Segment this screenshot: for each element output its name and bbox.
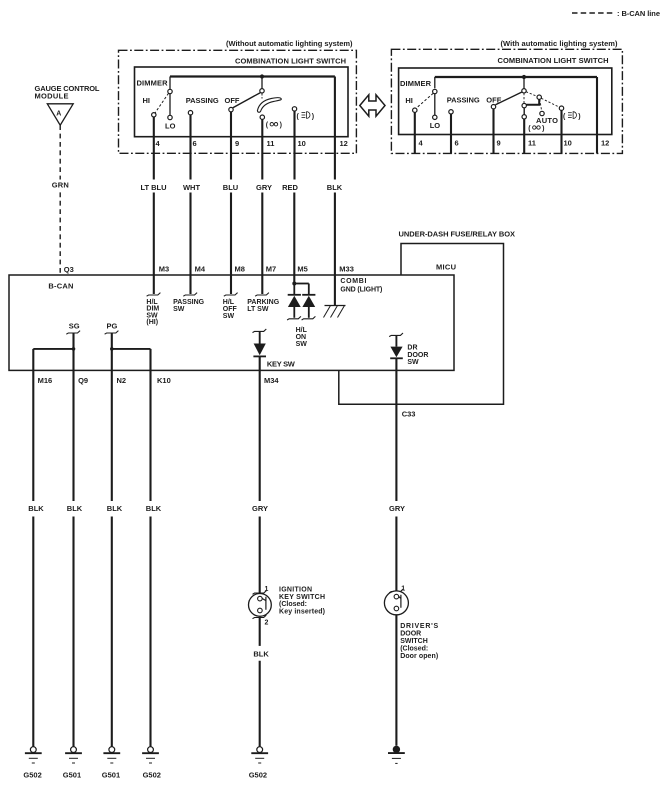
svg-text:SW: SW [223,313,235,320]
svg-text:BLK: BLK [107,504,123,513]
svg-text:G501: G501 [63,770,81,779]
svg-text:H/L: H/L [296,327,308,334]
svg-text:COMBINATION LIGHT SWITCH: COMBINATION LIGHT SWITCH [498,56,609,65]
svg-text:PASSING: PASSING [186,96,219,105]
svg-text:LO: LO [165,121,176,130]
svg-text:11: 11 [528,139,536,148]
svg-text:SWITCH: SWITCH [400,638,428,645]
svg-text:MICU: MICU [436,262,456,271]
svg-text:LO: LO [430,121,441,130]
svg-text:Key inserted): Key inserted) [279,609,325,616]
svg-text:ON: ON [296,334,307,341]
svg-text:COMBINATION LIGHT SWITCH: COMBINATION LIGHT SWITCH [235,57,346,66]
svg-text:PG: PG [107,322,118,331]
svg-text:): ) [542,125,544,132]
svg-text:GRY: GRY [389,504,405,513]
svg-text:B-CAN: B-CAN [48,281,73,290]
svg-text:BLK: BLK [146,504,162,513]
svg-text:9: 9 [497,139,501,148]
svg-text:G502: G502 [143,770,161,779]
svg-text:DIMMER: DIMMER [400,79,432,88]
svg-text:11: 11 [267,139,275,148]
svg-text:SG: SG [69,322,80,331]
svg-text:(HI): (HI) [146,319,158,326]
svg-text:(With automatic lighting syste: (With automatic lighting system) [501,39,619,48]
svg-text:DRIVER'S: DRIVER'S [400,623,438,630]
svg-text:LT BLU: LT BLU [140,183,166,192]
svg-text:Door open): Door open) [400,653,438,660]
svg-text:SW: SW [407,359,419,366]
svg-text:: B-CAN line: : B-CAN line [617,9,660,18]
svg-text:): ) [578,114,580,121]
svg-text:DIMMER: DIMMER [137,78,169,87]
svg-text:WHT: WHT [183,183,200,192]
svg-text:10: 10 [564,139,572,148]
svg-text:OFF: OFF [223,306,238,313]
svg-text:UNDER-DASH FUSE/RELAY BOX: UNDER-DASH FUSE/RELAY BOX [399,230,516,239]
svg-text:OFF: OFF [225,96,240,105]
svg-text:SW: SW [173,306,185,313]
svg-text:M34: M34 [264,376,279,385]
svg-text:1: 1 [401,586,405,593]
svg-text:M5: M5 [297,265,307,274]
svg-text:A: A [56,111,61,118]
svg-text:GRY: GRY [256,183,272,192]
svg-text:DR: DR [407,345,417,352]
svg-text:DOOR: DOOR [407,352,428,359]
svg-text:HI: HI [143,96,151,105]
svg-text:G502: G502 [23,770,41,779]
svg-text:H/L: H/L [223,299,235,306]
svg-text:SW: SW [296,341,308,348]
svg-text:KEY SW: KEY SW [267,360,296,369]
svg-text:BLK: BLK [327,183,343,192]
svg-text:M7: M7 [266,265,276,274]
svg-text:IGNITION: IGNITION [279,586,312,593]
svg-text:PASSING: PASSING [447,95,480,104]
svg-text:BLK: BLK [253,649,269,658]
svg-text:M33: M33 [339,265,354,274]
svg-text:PARKING: PARKING [247,299,280,306]
svg-text:6: 6 [193,139,197,148]
svg-text:1: 1 [265,586,269,593]
svg-text:OFF: OFF [486,95,501,104]
svg-text:10: 10 [298,139,306,148]
svg-text:12: 12 [340,139,348,148]
svg-text:PASSING: PASSING [173,299,205,306]
svg-text:): ) [312,114,314,121]
svg-text:M16: M16 [38,376,53,385]
svg-text:BLK: BLK [28,504,44,513]
svg-text:Q9: Q9 [78,376,88,385]
svg-text:BLK: BLK [67,504,83,513]
svg-text:2: 2 [265,619,269,626]
svg-text:GND (LIGHT): GND (LIGHT) [340,287,382,294]
svg-text:C33: C33 [402,409,416,418]
svg-text:(Closed:: (Closed: [400,645,428,652]
svg-text:M8: M8 [235,265,245,274]
svg-text:6: 6 [455,139,459,148]
svg-text:BLU: BLU [223,183,238,192]
svg-text:N2: N2 [117,376,127,385]
svg-text:G502: G502 [249,770,267,779]
svg-text:M3: M3 [159,265,169,274]
svg-text:AUTO: AUTO [536,116,558,125]
svg-text:G501: G501 [102,770,120,779]
svg-text:KEY SWITCH: KEY SWITCH [279,594,325,601]
svg-text:GRY: GRY [252,504,268,513]
svg-text:LT SW: LT SW [247,306,269,313]
svg-text:K10: K10 [157,376,171,385]
svg-text:DOOR: DOOR [400,631,421,638]
svg-text:HI: HI [405,96,413,105]
svg-text:): ) [280,122,282,129]
svg-text:(Without automatic lighting sy: (Without automatic lighting system) [226,39,353,48]
svg-text:MODULE: MODULE [35,91,69,100]
svg-text:12: 12 [601,139,609,148]
svg-text:COMBI: COMBI [340,278,366,285]
svg-text:9: 9 [235,139,239,148]
svg-text:M4: M4 [195,265,206,274]
svg-text:GRN: GRN [52,180,69,189]
svg-text:RED: RED [282,183,298,192]
svg-text:(Closed:: (Closed: [279,601,307,608]
svg-text:Q3: Q3 [64,265,74,274]
